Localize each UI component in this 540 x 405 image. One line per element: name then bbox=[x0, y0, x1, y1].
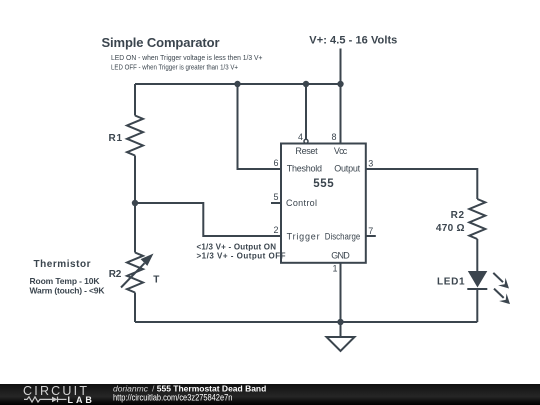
svg-text:7: 7 bbox=[368, 226, 373, 236]
pin 5 stub bbox=[271, 202, 281, 204]
svg-text:2: 2 bbox=[273, 225, 278, 235]
LED LED1 cathode bar bbox=[467, 288, 487, 290]
svg-text:GND: GND bbox=[331, 251, 350, 261]
svg-text:6: 6 bbox=[273, 158, 278, 168]
LED light arrow 1 bbox=[493, 273, 509, 289]
resistor R2 470 body bbox=[469, 199, 485, 239]
wire gnd branch bbox=[340, 263, 342, 337]
svg-text:LED OFF - when Trigger is grea: LED OFF - when Trigger is greater than 1… bbox=[111, 62, 238, 71]
ground symbol bbox=[327, 337, 355, 351]
svg-text:Warm (touch) - <9K: Warm (touch) - <9K bbox=[30, 286, 106, 296]
wire reset branch bbox=[305, 84, 307, 139]
svg-text:<1/3 V+ - Output ON: <1/3 V+ - Output ON bbox=[197, 243, 277, 252]
footer bar bbox=[0, 384, 540, 405]
wire top rail bbox=[135, 83, 341, 85]
LED LED1 triangle bbox=[468, 271, 488, 288]
wire output branch bbox=[366, 169, 478, 199]
svg-text:R1: R1 bbox=[109, 133, 123, 144]
svg-text:4: 4 bbox=[298, 132, 303, 142]
svg-text:Control: Control bbox=[286, 198, 317, 208]
wire left rail middle bbox=[134, 156, 136, 253]
wire threshold branch bbox=[238, 84, 282, 169]
svg-text:R2: R2 bbox=[109, 269, 122, 280]
svg-text:>1/3 V+ - Output OFF: >1/3 V+ - Output OFF bbox=[197, 252, 286, 261]
svg-text:3: 3 bbox=[368, 159, 373, 169]
svg-text:1: 1 bbox=[332, 264, 337, 274]
resistor R1 bbox=[127, 116, 143, 156]
LED light arrow 2 bbox=[494, 289, 510, 305]
logo wire art bbox=[24, 397, 67, 403]
pin 4 reset bubble bbox=[304, 139, 308, 143]
junction node at ground bbox=[337, 319, 343, 325]
svg-text:http://circuitlab.com/ce3z2758: http://circuitlab.com/ce3z275842e7n bbox=[113, 393, 232, 403]
svg-text:LED ON - when Trigger voltage: LED ON - when Trigger voltage is less th… bbox=[111, 53, 263, 62]
logo diode triangle bbox=[52, 397, 58, 403]
svg-text:Simple Comparator: Simple Comparator bbox=[102, 35, 220, 50]
svg-text:8: 8 bbox=[331, 132, 336, 142]
svg-text:LED1: LED1 bbox=[437, 277, 465, 288]
svg-text:T: T bbox=[153, 275, 159, 286]
junction node at threshold rail bbox=[234, 81, 240, 87]
IC U1 555 timer body bbox=[281, 144, 366, 263]
junction node at V+ rail bbox=[337, 81, 343, 87]
wire bottom rail bbox=[135, 321, 477, 323]
svg-text:Thermistor: Thermistor bbox=[34, 259, 91, 270]
svg-text:Room Temp - 10K: Room Temp - 10K bbox=[30, 276, 101, 286]
svg-text:555: 555 bbox=[313, 178, 334, 190]
svg-text:Theshold: Theshold bbox=[287, 164, 322, 174]
svg-text:470 Ω: 470 Ω bbox=[436, 223, 465, 234]
svg-text:Trigger: Trigger bbox=[287, 232, 320, 242]
svg-text:Reset: Reset bbox=[295, 146, 318, 156]
thermistor R2 arrow bbox=[121, 263, 145, 287]
svg-text:R2: R2 bbox=[451, 210, 465, 221]
wire right rail lower bbox=[476, 289, 478, 322]
junction node at reset rail bbox=[303, 81, 309, 87]
thermistor R2 body bbox=[127, 253, 143, 293]
pin 7 stub bbox=[366, 235, 376, 237]
wire trigger branch bbox=[135, 203, 281, 236]
svg-text:V+: 4.5 - 16 Volts: V+: 4.5 - 16 Volts bbox=[309, 34, 397, 46]
svg-text:Discharge: Discharge bbox=[325, 232, 360, 242]
svg-text:5: 5 bbox=[273, 192, 278, 202]
wire V+ branch bbox=[340, 49, 342, 144]
wire LED to R2 bbox=[476, 239, 478, 271]
junction node at trigger tap bbox=[132, 200, 138, 206]
svg-text:LAB: LAB bbox=[68, 395, 93, 405]
wire left rail lower bbox=[134, 293, 136, 323]
thermistor arrow head bbox=[141, 254, 154, 266]
svg-text:Vcc: Vcc bbox=[334, 146, 348, 156]
svg-text:Output: Output bbox=[334, 164, 360, 174]
wire left rail upper bbox=[134, 84, 136, 116]
